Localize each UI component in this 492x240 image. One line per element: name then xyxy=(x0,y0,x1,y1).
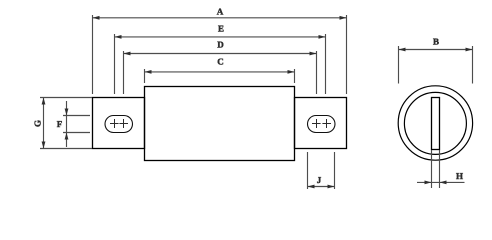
svg-text:H: H xyxy=(456,171,463,181)
svg-text:C: C xyxy=(217,57,224,67)
svg-text:J: J xyxy=(317,175,322,185)
svg-text:E: E xyxy=(218,24,224,34)
svg-text:D: D xyxy=(217,40,224,50)
svg-text:G: G xyxy=(33,120,43,127)
svg-text:F: F xyxy=(57,119,63,129)
svg-text:A: A xyxy=(217,7,224,17)
svg-text:B: B xyxy=(433,37,439,47)
